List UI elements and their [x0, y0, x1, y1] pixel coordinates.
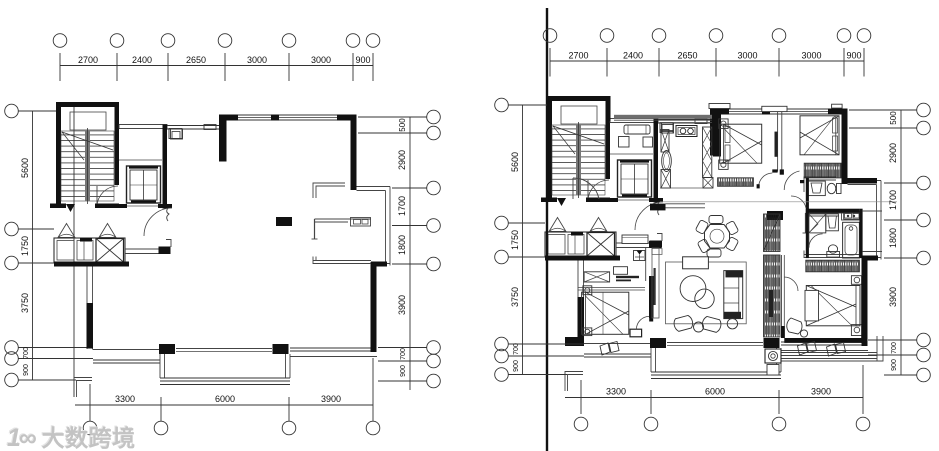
corridor door arc	[144, 208, 172, 236]
bath3 left wall	[806, 209, 809, 258]
kitchen counter west piece	[662, 125, 673, 134]
stair block bottom wall	[50, 204, 66, 209]
master bed	[582, 292, 629, 334]
master bench	[630, 329, 642, 337]
svg-text:3750: 3750	[20, 293, 30, 313]
bath2 left wall	[806, 178, 809, 209]
balcony slippers left	[600, 342, 619, 356]
svg-text:1700: 1700	[397, 196, 407, 216]
lower-right black wall segment	[371, 262, 387, 267]
bottom axis bubbles	[83, 421, 97, 435]
stove with burners	[676, 126, 697, 137]
bedroom1 nightstand bottom	[719, 160, 728, 169]
svg-text:900: 900	[891, 359, 898, 371]
bath bay walls	[863, 210, 882, 212]
armchair right	[701, 316, 722, 333]
left shaft cell	[57, 241, 74, 261]
elevator shaft with X	[96, 239, 124, 263]
elevator room right wall	[163, 125, 168, 209]
corner column right of bay	[273, 344, 289, 354]
right boundary wall upper	[351, 120, 357, 190]
bedroom3 door	[784, 277, 798, 291]
master nightstand bottom	[583, 328, 592, 336]
right plan top axis bubbles	[543, 29, 557, 43]
bedroom1 door	[759, 173, 773, 188]
bottom-left balcony corner	[74, 378, 92, 398]
right vertical dimension line of left plan	[409, 117, 411, 390]
master dresser	[584, 272, 610, 282]
TV console	[652, 248, 659, 318]
corridor north window gray band	[614, 115, 712, 119]
bedroom3 chair	[787, 318, 802, 334]
svg-text:1750: 1750	[510, 230, 520, 250]
bedroom3 wardrobe	[806, 260, 860, 272]
window bump over kitchen	[709, 104, 730, 109]
bedroom1 nightstand top	[719, 119, 728, 128]
svg-text:2400: 2400	[623, 51, 643, 61]
stairwell outer walls	[56, 102, 119, 107]
svg-text:6000: 6000	[705, 387, 725, 397]
svg-text:3900: 3900	[888, 287, 898, 307]
master bath partition	[645, 248, 647, 282]
bath3 top wall	[806, 209, 860, 213]
vent triangle right	[99, 224, 116, 238]
shaft block outer	[54, 238, 125, 263]
bath2 door	[791, 196, 806, 208]
svg-text:2400: 2400	[132, 55, 152, 65]
svg-text:5600: 5600	[20, 158, 30, 178]
svg-text:1800: 1800	[397, 235, 407, 255]
middle shaft cell	[77, 241, 93, 261]
bath3 right wall	[859, 209, 862, 258]
bedroom3 nightstand top	[851, 276, 862, 285]
svg-text:3750: 3750	[510, 287, 520, 307]
bedroom3 bed	[806, 286, 860, 326]
window bump over bedroom2	[832, 104, 843, 108]
master nightstand top	[583, 286, 592, 295]
svg-text:3000: 3000	[737, 51, 757, 61]
right plan left vertical dimension line	[522, 105, 524, 375]
terrace slippers	[798, 342, 817, 356]
svg-text:2700: 2700	[78, 55, 98, 65]
dining table	[705, 225, 730, 249]
stair block right wall upper extension	[606, 96, 611, 121]
right plan right axis bubbles	[917, 103, 931, 117]
corridor dimension leader	[660, 201, 897, 203]
bedroom3 left wall	[781, 255, 783, 338]
top chain extension ticks	[59, 53, 61, 81]
small duct below band	[171, 129, 183, 139]
right bay outer wall	[385, 191, 387, 263]
svg-text:900: 900	[23, 364, 30, 376]
right plan bottom axis bubbles	[574, 417, 588, 431]
top wall of main space	[224, 115, 238, 121]
svg-text:700: 700	[23, 347, 30, 359]
left vertical dimension line	[32, 111, 34, 380]
right plan top dimension line	[550, 60, 864, 62]
bay right jamb	[285, 354, 287, 378]
sideboard	[683, 257, 709, 269]
master toilet nook	[634, 251, 646, 261]
corridor stub walls right of shafts	[125, 248, 159, 250]
bedroom1 wardrobe	[718, 178, 754, 187]
bedroom3 wall right	[861, 276, 867, 343]
bay top sliding window	[176, 348, 272, 350]
svg-text:2650: 2650	[677, 51, 697, 61]
svg-text:1800: 1800	[888, 228, 898, 248]
bath3 sink	[826, 214, 839, 231]
right plan structural walls (copy of shell)	[541, 96, 881, 391]
svg-text:500: 500	[889, 111, 898, 125]
master counter	[614, 267, 628, 275]
svg-text:2700: 2700	[568, 51, 588, 61]
kitchen tall cabinets	[703, 127, 712, 178]
master/living wall	[649, 276, 654, 318]
dining chairs	[709, 216, 723, 224]
svg-text:700: 700	[513, 343, 520, 355]
svg-text:3000: 3000	[801, 51, 821, 61]
bedroom2 bed	[800, 116, 839, 155]
svg-text:3000: 3000	[311, 55, 331, 65]
svg-text:1700: 1700	[888, 190, 898, 210]
pantry box	[703, 178, 713, 189]
vent triangle left	[58, 224, 75, 238]
living rug	[666, 262, 747, 324]
svg-text:2650: 2650	[186, 55, 206, 65]
main room left wall	[86, 267, 88, 350]
side table circles	[694, 322, 704, 332]
interior column block	[276, 217, 292, 226]
svg-text:3300: 3300	[606, 387, 626, 397]
bedroom3 blanket	[805, 290, 819, 321]
kitchen cabinet upper	[661, 130, 669, 153]
console top box	[652, 249, 662, 255]
bottom window band right	[290, 347, 371, 349]
entry door arc	[573, 178, 599, 199]
svg-text:2900: 2900	[888, 143, 898, 163]
corner column left of bay	[159, 344, 175, 354]
AC platform partition	[315, 218, 372, 220]
washing machine	[765, 349, 781, 363]
top-left wall stub	[219, 115, 227, 162]
lobby bench	[624, 125, 650, 134]
door threshold triangle	[66, 204, 75, 212]
corridor to living opening	[666, 203, 706, 205]
svg-text:700: 700	[891, 342, 898, 354]
svg-text:900: 900	[355, 55, 370, 65]
divider line between plans	[546, 8, 548, 451]
left plan bottom dimension line	[75, 404, 373, 406]
armchair left	[673, 315, 694, 332]
top axis bubbles	[53, 34, 67, 48]
left axis bubbles	[5, 104, 19, 118]
bath3 shower	[809, 214, 826, 233]
corridor cabinet upper	[764, 214, 781, 252]
lobby partition line	[119, 159, 162, 161]
svg-text:3900: 3900	[321, 394, 341, 404]
stair direction diagonal	[62, 132, 113, 150]
kitchen cabinet lower	[661, 170, 671, 189]
svg-text:3300: 3300	[115, 394, 135, 404]
right plan right vertical dimension line	[900, 110, 902, 375]
terrace under bedroom3	[781, 352, 877, 354]
bath3 bathtub	[843, 222, 860, 258]
sofa	[724, 271, 743, 319]
stair door arc	[97, 186, 118, 207]
left plan top dimension line	[60, 65, 373, 67]
master shelf bars	[616, 276, 639, 278]
corridor cabinet lower	[764, 255, 781, 337]
svg-text:5600: 5600	[510, 152, 520, 172]
bedroom3 bottom wall	[784, 338, 867, 343]
bath3 vanity shelf	[844, 213, 860, 219]
wall kitchen/bedroom1	[713, 110, 721, 157]
bedroom2 wardrobe	[804, 163, 841, 178]
wall block entry/living	[649, 241, 662, 248]
svg-text:3900: 3900	[811, 387, 831, 397]
bay left jamb	[159, 354, 161, 378]
elevator car	[127, 166, 161, 203]
bath3 door	[809, 234, 823, 248]
svg-text:2900: 2900	[397, 150, 407, 170]
stair treads	[61, 131, 114, 201]
window bump over bedroom1	[762, 106, 787, 111]
bedroom1 bed	[720, 124, 762, 163]
bottom window band left	[93, 349, 163, 351]
svg-text:3000: 3000	[247, 55, 267, 65]
shaft block bottom wall	[54, 262, 129, 267]
wall right of bedroom2 to bath bay	[848, 178, 878, 184]
bath2 toilet	[837, 184, 842, 194]
kitchen counter edge	[660, 122, 712, 124]
right axis bubbles of left plan	[427, 110, 441, 124]
elevator room top wall	[119, 125, 167, 129]
lobby side tables	[619, 137, 630, 148]
rug circles	[680, 276, 706, 302]
bay lower partition	[313, 257, 390, 264]
entry hall cabinet	[622, 235, 648, 244]
master door	[636, 316, 649, 329]
stair upper landing	[70, 112, 106, 130]
bottom-left corner block	[565, 337, 584, 346]
bath2 sink	[807, 181, 825, 196]
right bay top	[357, 186, 391, 188]
watermark logo	[7, 419, 136, 451]
svg-text:3900: 3900	[397, 295, 407, 315]
bedroom2 door	[784, 171, 799, 190]
right plan left axis bubbles	[495, 98, 509, 112]
hall window band to stair block	[167, 125, 219, 127]
svg-text:900: 900	[513, 360, 520, 372]
svg-text:700: 700	[400, 348, 407, 360]
small partition stub vertical	[314, 219, 316, 239]
partition bedroom1/2	[777, 112, 779, 172]
bedroom3 nightstand bottom	[851, 325, 862, 336]
upper-right interior thin wall	[316, 186, 345, 198]
svg-text:500: 500	[398, 118, 407, 132]
svg-text:900: 900	[846, 51, 861, 61]
duct box beside wall	[169, 129, 182, 139]
right plan bottom dimension line	[565, 397, 863, 399]
stair middle stringer	[85, 131, 90, 201]
svg-text:1750: 1750	[20, 236, 30, 256]
kitchen sink	[662, 151, 672, 172]
svg-text:6000: 6000	[215, 394, 235, 404]
bath3 toilet	[827, 252, 840, 258]
svg-text:900: 900	[400, 365, 407, 377]
right boundary wall lower	[371, 262, 377, 352]
bay bottom window	[160, 377, 290, 379]
balcony cabinet below washer	[767, 365, 779, 376]
